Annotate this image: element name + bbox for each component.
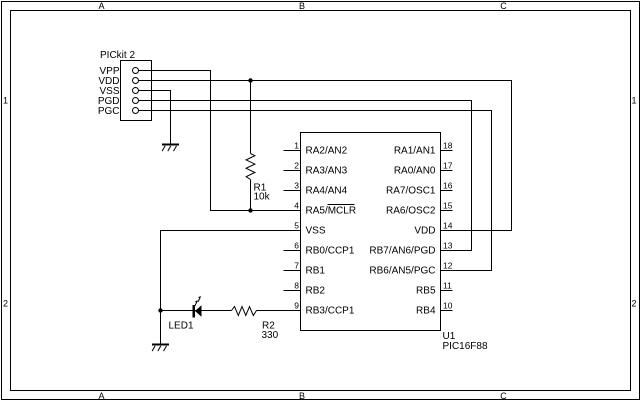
pin 15 RA6/OSC2 bbox=[441, 210, 453, 212]
pin 7 RB1 bbox=[284, 270, 301, 272]
wire PGD to pin 13 bbox=[139, 101, 472, 251]
IC U1 body bbox=[301, 133, 441, 331]
connector pin circle PGD bbox=[133, 98, 139, 104]
svg-text:2: 2 bbox=[294, 160, 299, 170]
svg-text:PGC: PGC bbox=[98, 106, 120, 117]
junction LED node bbox=[158, 308, 162, 312]
wire VDD to pin 14 bbox=[139, 81, 512, 231]
ground symbol GND2 bbox=[152, 344, 169, 352]
svg-text:16: 16 bbox=[443, 180, 453, 190]
svg-text:17: 17 bbox=[443, 160, 453, 170]
wire PGC to pin 12 bbox=[139, 111, 492, 271]
junction R1 top bbox=[248, 78, 252, 82]
svg-text:VSS: VSS bbox=[306, 226, 326, 237]
wire IC VSS pin 5 to LED branch bbox=[161, 231, 301, 311]
connector pin circle VPP bbox=[133, 68, 139, 74]
svg-text:LED1: LED1 bbox=[169, 320, 194, 331]
pin 2 RA3/AN3 bbox=[284, 170, 301, 172]
svg-text:B: B bbox=[299, 391, 305, 400]
pin 18 RA1/AN1 bbox=[441, 150, 453, 152]
svg-text:C: C bbox=[500, 1, 507, 11]
resistor R1 bbox=[246, 81, 255, 211]
svg-text:RA4/AN4: RA4/AN4 bbox=[306, 186, 348, 197]
pin 1 RA2/AN2 bbox=[284, 150, 301, 152]
svg-text:3: 3 bbox=[294, 180, 299, 190]
svg-text:330: 330 bbox=[262, 330, 279, 341]
svg-text:11: 11 bbox=[443, 280, 452, 290]
connector pin circle VDD bbox=[133, 78, 139, 84]
wire VSS to ground bbox=[139, 91, 171, 144]
svg-text:B: B bbox=[299, 1, 305, 11]
svg-text:PICkit 2: PICkit 2 bbox=[100, 50, 135, 61]
pin 16 RA7/OSC1 bbox=[441, 190, 453, 192]
svg-text:VDD: VDD bbox=[414, 226, 435, 237]
svg-text:13: 13 bbox=[443, 240, 453, 250]
svg-text:4: 4 bbox=[294, 200, 299, 210]
pin 3 RA4/AN4 bbox=[284, 190, 301, 192]
connector pin circle VSS bbox=[133, 88, 139, 94]
svg-text:PIC16F88: PIC16F88 bbox=[443, 341, 488, 352]
svg-text:14: 14 bbox=[443, 220, 453, 230]
svg-text:9: 9 bbox=[294, 300, 299, 310]
wire VPP to RA5/MCLR bbox=[139, 71, 301, 211]
svg-text:2: 2 bbox=[3, 299, 8, 309]
svg-text:6: 6 bbox=[294, 240, 299, 250]
svg-text:RA2/AN2: RA2/AN2 bbox=[306, 146, 348, 157]
wire LED row right bbox=[257, 310, 301, 312]
svg-text:RB0/CCP1: RB0/CCP1 bbox=[306, 246, 355, 257]
svg-text:RA7/OSC1: RA7/OSC1 bbox=[386, 186, 436, 197]
wire to ground GND2 bbox=[160, 311, 162, 344]
resistor R2 bbox=[232, 307, 257, 316]
svg-text:RA6/OSC2: RA6/OSC2 bbox=[386, 206, 436, 217]
svg-text:A: A bbox=[98, 1, 104, 11]
svg-text:18: 18 bbox=[443, 140, 453, 150]
svg-text:RA5/MCLR: RA5/MCLR bbox=[306, 206, 357, 217]
svg-text:RB7/AN6/PGD: RB7/AN6/PGD bbox=[369, 246, 435, 257]
svg-text:RA3/AN3: RA3/AN3 bbox=[306, 166, 348, 177]
svg-text:1: 1 bbox=[294, 140, 299, 150]
svg-text:10k: 10k bbox=[254, 192, 271, 203]
ground symbol GND1 bbox=[162, 144, 179, 152]
pin 10 RB4 bbox=[441, 310, 453, 312]
svg-text:RB6/AN5/PGC: RB6/AN5/PGC bbox=[369, 266, 435, 277]
svg-text:RB1: RB1 bbox=[306, 266, 326, 277]
svg-text:A: A bbox=[98, 391, 104, 400]
pin 8 RB2 bbox=[284, 290, 301, 292]
svg-text:8: 8 bbox=[294, 280, 299, 290]
svg-text:10: 10 bbox=[443, 300, 453, 310]
svg-text:12: 12 bbox=[443, 260, 453, 270]
svg-text:2: 2 bbox=[631, 299, 636, 309]
svg-text:RB3/CCP1: RB3/CCP1 bbox=[306, 306, 355, 317]
wire LED row left bbox=[161, 310, 232, 312]
LED LED1 bbox=[193, 296, 202, 318]
pin 6 RB0/CCP1 bbox=[284, 250, 301, 252]
svg-text:C: C bbox=[500, 391, 507, 400]
svg-text:1: 1 bbox=[631, 96, 636, 106]
svg-text:RB2: RB2 bbox=[306, 286, 326, 297]
svg-text:RB5: RB5 bbox=[416, 286, 436, 297]
pin 17 RA0/AN0 bbox=[441, 170, 453, 172]
connector PICkit 2 body bbox=[121, 61, 152, 121]
connector pin circle PGC bbox=[133, 108, 139, 114]
pin 11 RB5 bbox=[441, 290, 453, 292]
svg-text:15: 15 bbox=[443, 200, 453, 210]
svg-text:RA1/AN1: RA1/AN1 bbox=[394, 146, 436, 157]
svg-text:RB4: RB4 bbox=[416, 306, 436, 317]
junction R1 bottom bbox=[248, 208, 252, 212]
svg-text:RA0/AN0: RA0/AN0 bbox=[394, 166, 436, 177]
svg-text:7: 7 bbox=[294, 260, 299, 270]
svg-text:1: 1 bbox=[3, 96, 8, 106]
svg-text:5: 5 bbox=[294, 220, 299, 230]
